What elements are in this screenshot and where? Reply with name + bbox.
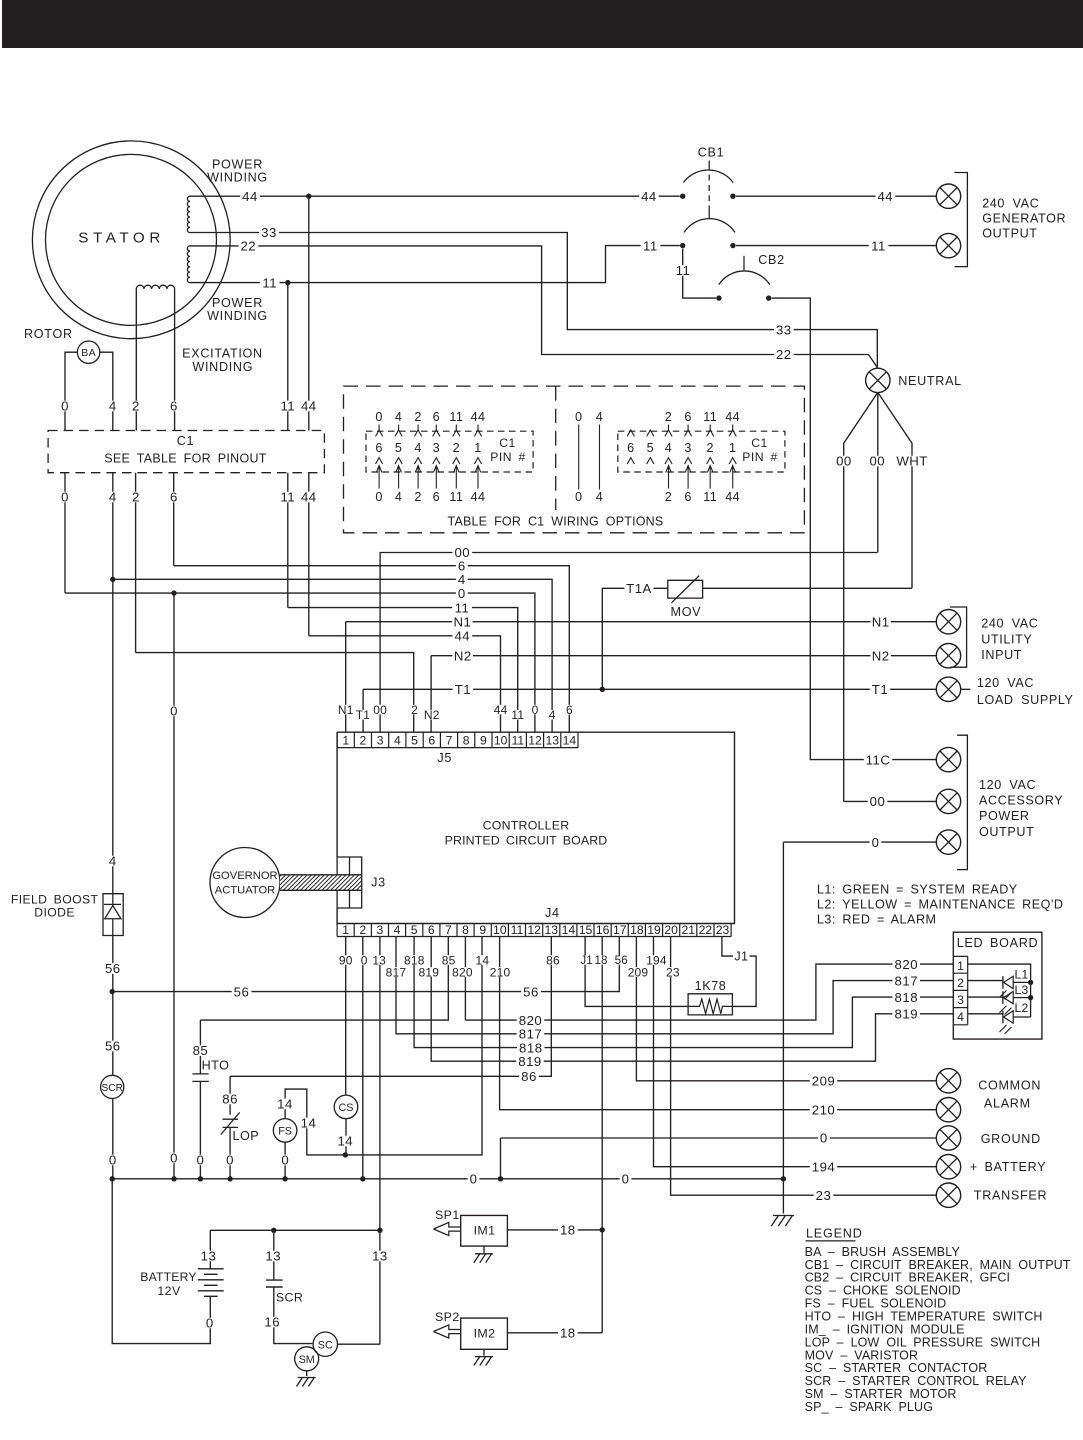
label 14 under J4p9 bbox=[475, 955, 491, 965]
svg-text:11: 11 bbox=[262, 275, 277, 290]
svg-text:0: 0 bbox=[375, 410, 382, 424]
label 86 mid bbox=[519, 1071, 539, 1082]
terminal common alarm 210 bbox=[936, 1098, 960, 1122]
label N1 at terminal bbox=[870, 616, 891, 627]
svg-text:56: 56 bbox=[105, 1039, 121, 1054]
label 210 at terminal bbox=[810, 1104, 838, 1115]
governor actuator circle bbox=[210, 848, 280, 918]
svg-text:6: 6 bbox=[433, 410, 440, 424]
neutral terminal circle bbox=[866, 368, 890, 392]
battery 12V symbol bbox=[198, 1268, 224, 1270]
svg-text:UTILITY: UTILITY bbox=[981, 633, 1032, 647]
choke solenoid CS bbox=[334, 1095, 358, 1119]
wire net N2 bus J5 pin6 to utility bbox=[431, 656, 936, 733]
svg-text:44: 44 bbox=[301, 490, 317, 505]
connector J5 cells and pin numbers bbox=[337, 747, 578, 749]
label 11 at CB1 bbox=[641, 240, 661, 251]
label T1 on bus bbox=[453, 684, 474, 695]
svg-text:11C: 11C bbox=[866, 752, 891, 767]
svg-text:4: 4 bbox=[395, 410, 402, 424]
wire battery positive bbox=[209, 1230, 211, 1269]
svg-text:11: 11 bbox=[449, 490, 463, 504]
wire net 0 ground terminal bbox=[501, 1138, 937, 1179]
label 0 on bus bbox=[456, 588, 468, 599]
wire net 22 stator to neutral bbox=[190, 246, 878, 368]
svg-text:2: 2 bbox=[957, 976, 964, 990]
svg-text:9: 9 bbox=[480, 734, 487, 748]
svg-text:13: 13 bbox=[265, 1249, 281, 1264]
label J1 under J4p15 bbox=[579, 955, 594, 964]
svg-text:OUTPUT: OUTPUT bbox=[979, 825, 1034, 839]
breaker CB1 pole 2 contacts bbox=[680, 243, 685, 248]
svg-text:17: 17 bbox=[613, 923, 627, 937]
svg-text:86: 86 bbox=[521, 1069, 537, 1084]
svg-text:ACTUATOR: ACTUATOR bbox=[215, 885, 276, 897]
label 44 below C1 bbox=[299, 492, 319, 503]
svg-text:ACCESSORY: ACCESSORY bbox=[979, 793, 1063, 807]
svg-text:GROUND: GROUND bbox=[981, 1132, 1041, 1146]
label 56 below junction bbox=[103, 1041, 123, 1052]
svg-text:T1A: T1A bbox=[626, 581, 652, 596]
svg-text:8: 8 bbox=[462, 923, 469, 937]
svg-text:21: 21 bbox=[681, 923, 695, 937]
label 14 at FS bbox=[275, 1099, 295, 1110]
junction dot L3 anode bbox=[1028, 995, 1033, 1000]
terminal accessory 00 bbox=[936, 789, 960, 813]
LED L2 bbox=[1002, 1011, 1004, 1024]
label 194 under J4p19 bbox=[645, 955, 668, 965]
pressure switch LOP bbox=[223, 1119, 239, 1127]
label 820 mid bbox=[517, 1015, 545, 1026]
label 4 at field boost bbox=[107, 856, 119, 867]
table for C1 outer dashed box bbox=[344, 386, 805, 533]
LED board box bbox=[953, 932, 1042, 1039]
svg-text:11: 11 bbox=[511, 708, 524, 722]
wire net 817 J4 pin4 to LED2 bbox=[396, 937, 954, 1034]
wire net T1A bbox=[602, 588, 668, 689]
svg-text:IM2: IM2 bbox=[474, 1327, 496, 1341]
svg-text:N1: N1 bbox=[338, 703, 354, 717]
svg-text:11: 11 bbox=[511, 734, 524, 748]
svg-text:22: 22 bbox=[776, 347, 792, 362]
junction dots bottom bus bbox=[110, 1176, 115, 1181]
wire net 11 CB1 to CB2 bbox=[683, 249, 716, 299]
label 85 at HTO bbox=[191, 1045, 211, 1056]
wire net 0 to accessory output bbox=[783, 841, 936, 843]
wire net 0 bus to J5 pin12 bbox=[65, 593, 535, 732]
label 6 on bus bbox=[456, 560, 468, 571]
svg-text:6: 6 bbox=[375, 441, 382, 455]
label N2 on bus bbox=[453, 650, 474, 661]
label 0 on drop (upper) bbox=[168, 706, 180, 717]
svg-text:6: 6 bbox=[428, 734, 435, 748]
svg-text:4: 4 bbox=[394, 923, 401, 937]
wire net 13 horizontal bbox=[210, 1229, 380, 1231]
svg-text:OUTPUT: OUTPUT bbox=[982, 227, 1037, 241]
wire net 16 SCR to SC bbox=[274, 1287, 313, 1344]
label 817 at LED bbox=[893, 975, 921, 986]
svg-text:23: 23 bbox=[816, 1188, 832, 1203]
LED board pin1 wire bbox=[968, 964, 1031, 1017]
svg-text:44: 44 bbox=[471, 490, 486, 504]
svg-text:FS: FS bbox=[278, 1126, 292, 1138]
svg-text:CS – CHOKE SOLENOID: CS – CHOKE SOLENOID bbox=[805, 1284, 961, 1298]
svg-text:56: 56 bbox=[234, 984, 250, 999]
svg-text:N1: N1 bbox=[453, 614, 471, 629]
LED L3 bbox=[1002, 991, 1004, 1004]
svg-text:2: 2 bbox=[360, 734, 367, 748]
terminal accessory 0 bbox=[936, 830, 960, 854]
svg-text:SEE TABLE FOR PINOUT: SEE TABLE FOR PINOUT bbox=[104, 452, 267, 466]
svg-text:POWER: POWER bbox=[979, 809, 1030, 823]
svg-text:6: 6 bbox=[428, 923, 435, 937]
bracket accessory output bbox=[957, 735, 967, 869]
svg-text:0: 0 bbox=[575, 410, 582, 424]
label 6 below C1 bbox=[168, 492, 180, 503]
svg-text:SP2: SP2 bbox=[435, 1310, 460, 1324]
svg-text:209: 209 bbox=[628, 965, 649, 979]
svg-text:210: 210 bbox=[812, 1102, 836, 1117]
svg-text:BA – BRUSH ASSEMBLY: BA – BRUSH ASSEMBLY bbox=[805, 1245, 961, 1259]
terminal transfer 23 bbox=[936, 1183, 960, 1207]
svg-text:44: 44 bbox=[877, 189, 893, 204]
wire net 44 bus to J5 pin10 bbox=[309, 636, 501, 732]
wire net 56 J4 pin17 to relay chain bbox=[112, 937, 619, 992]
svg-text:LOP: LOP bbox=[232, 1129, 259, 1143]
svg-text:14: 14 bbox=[337, 1134, 353, 1149]
wire net 11 bus to J5 pin11 bbox=[288, 608, 518, 733]
svg-text:HTO: HTO bbox=[202, 1059, 230, 1073]
svg-text:44: 44 bbox=[494, 703, 508, 717]
wire IM1 ground bbox=[483, 1246, 485, 1253]
relay contact SCR bbox=[266, 1280, 283, 1287]
svg-text:820: 820 bbox=[519, 1013, 543, 1028]
svg-text:9: 9 bbox=[479, 923, 486, 937]
label 44 near stator bbox=[240, 191, 260, 202]
svg-text:10: 10 bbox=[493, 923, 507, 937]
svg-text:86: 86 bbox=[222, 1092, 238, 1107]
stator outer circle bbox=[32, 141, 230, 339]
svg-text:2: 2 bbox=[665, 490, 672, 504]
label 0 above C1 bbox=[59, 401, 71, 412]
svg-text:2: 2 bbox=[665, 410, 672, 424]
svg-text:4: 4 bbox=[665, 441, 672, 455]
svg-text:3: 3 bbox=[684, 441, 691, 455]
terminal 240VAC utility N2 bbox=[936, 644, 960, 668]
svg-text:MOV – VARISTOR: MOV – VARISTOR bbox=[805, 1348, 919, 1362]
svg-text:22: 22 bbox=[240, 239, 256, 254]
svg-text:CB1 – CIRCUIT BREAKER, MAIN OU: CB1 – CIRCUIT BREAKER, MAIN OUTPUT bbox=[805, 1258, 1071, 1272]
svg-text:0: 0 bbox=[458, 586, 466, 601]
table divider dashed line bbox=[555, 386, 557, 510]
svg-text:22: 22 bbox=[699, 923, 713, 937]
svg-text:14: 14 bbox=[562, 923, 576, 937]
label 22 near stator bbox=[239, 241, 259, 252]
svg-text:817: 817 bbox=[895, 973, 919, 988]
svg-text:0: 0 bbox=[206, 1316, 214, 1331]
svg-text:13: 13 bbox=[545, 734, 559, 748]
svg-text:12: 12 bbox=[528, 734, 542, 748]
svg-text:817: 817 bbox=[386, 965, 407, 979]
svg-text:0: 0 bbox=[361, 953, 368, 967]
svg-text:J3: J3 bbox=[371, 876, 386, 890]
svg-text:194: 194 bbox=[646, 953, 667, 967]
label 817 under J4p4 bbox=[385, 967, 408, 977]
label 13 under J4p3 bbox=[371, 955, 387, 965]
label 00 (middle leg) bbox=[868, 456, 888, 467]
svg-text:0: 0 bbox=[170, 704, 178, 719]
wire net 819 J4 pin6 to LED4 bbox=[431, 937, 954, 1062]
svg-text:23: 23 bbox=[716, 923, 730, 937]
svg-text:SM – STARTER MOTOR: SM – STARTER MOTOR bbox=[805, 1387, 957, 1401]
label 0 on bottom bus (left) bbox=[468, 1174, 480, 1185]
label 209 at terminal bbox=[810, 1076, 838, 1087]
wire net 818 J4 pin5 to LED3 bbox=[414, 937, 954, 1048]
label 4 below C1 bbox=[107, 492, 119, 503]
svg-text:194: 194 bbox=[812, 1159, 836, 1174]
label 819 under J4p6 bbox=[418, 967, 441, 977]
chassis ground (IM2) bbox=[474, 1357, 493, 1366]
svg-text:33: 33 bbox=[776, 322, 792, 337]
svg-text:PIN #: PIN # bbox=[742, 450, 777, 464]
label 2 above C1 bbox=[130, 401, 142, 412]
wire net 11 CB1 to output terminal bbox=[736, 245, 937, 247]
junction dot net18 IM1 bbox=[600, 1227, 605, 1232]
terminal accessory 11C bbox=[936, 747, 960, 771]
svg-text:NEUTRAL: NEUTRAL bbox=[898, 374, 962, 388]
table left inner dashed box bbox=[366, 431, 533, 472]
svg-text:SM: SM bbox=[299, 1354, 315, 1366]
svg-text:L1: GREEN = SYSTEM READY: L1: GREEN = SYSTEM READY bbox=[817, 883, 1018, 897]
label 0 on bottom bus (right) bbox=[620, 1174, 632, 1185]
breaker CB1 trip link dashed bbox=[708, 175, 710, 206]
wire net 86 J4 pin13 to LOP bbox=[230, 937, 551, 1115]
wire net 11 below C1 bbox=[287, 473, 289, 608]
label 33 near neutral bbox=[774, 324, 794, 335]
svg-text:6: 6 bbox=[627, 441, 634, 455]
label WHT bbox=[897, 456, 927, 467]
wire net T1 bus J5 pin2 to load bbox=[363, 689, 936, 732]
label 0 under J4p2 bbox=[360, 955, 369, 965]
svg-text:00: 00 bbox=[870, 794, 886, 809]
breaker CB1 pole 2 arc bbox=[684, 219, 735, 233]
label 56 mid bbox=[521, 986, 541, 997]
svg-text:2: 2 bbox=[706, 441, 713, 455]
svg-text:N2: N2 bbox=[872, 648, 890, 663]
svg-text:817: 817 bbox=[519, 1026, 543, 1041]
svg-text:209: 209 bbox=[812, 1073, 836, 1088]
breaker CB1 stem bbox=[708, 161, 710, 171]
LED board pin cells bbox=[953, 956, 967, 1024]
svg-text:11: 11 bbox=[455, 600, 470, 615]
svg-text:0: 0 bbox=[226, 1153, 234, 1168]
junction dot net 56 bbox=[110, 989, 115, 994]
wire net 210 J4 pin10 to terminal bbox=[500, 937, 937, 1110]
breaker CB2 arc bbox=[719, 271, 770, 285]
chassis ground (right) bbox=[771, 1216, 794, 1227]
label 00 on bus bbox=[453, 547, 473, 558]
label 11 between CB1 and CB2 bbox=[673, 265, 693, 276]
label 00 at accessory bbox=[868, 796, 888, 807]
svg-text:13: 13 bbox=[544, 923, 558, 937]
wire net 6 excitation to C1 bbox=[174, 289, 176, 431]
svg-text:0: 0 bbox=[170, 1151, 178, 1166]
junction dot 11/column11 bbox=[285, 280, 290, 285]
wire net 44 CB1 to output terminal bbox=[736, 195, 937, 197]
label 11 near stator bbox=[260, 277, 280, 288]
starter contactor SC bbox=[313, 1332, 337, 1356]
svg-text:4: 4 bbox=[596, 490, 603, 504]
wire IM2 ground bbox=[483, 1349, 485, 1355]
excitation winding coil bbox=[136, 285, 174, 289]
label 6 above C1 bbox=[168, 401, 180, 412]
label 44 at generator output bbox=[876, 191, 896, 202]
svg-text:85: 85 bbox=[193, 1043, 209, 1058]
wire net 44 column to C1 bbox=[308, 196, 310, 430]
varistor MOV slash bbox=[672, 576, 700, 603]
connector C1 dashed box bbox=[48, 431, 324, 473]
svg-text:0: 0 bbox=[109, 1153, 117, 1168]
svg-text:0: 0 bbox=[61, 490, 69, 505]
controller PCB outline bbox=[337, 732, 734, 923]
svg-text:0: 0 bbox=[470, 1171, 478, 1186]
label 56 under J4p17 bbox=[614, 955, 629, 964]
svg-text:6: 6 bbox=[170, 490, 178, 505]
label 819 mid bbox=[516, 1056, 544, 1067]
junction dot net13 bbox=[377, 1228, 382, 1233]
resistor 1K78 zigzag bbox=[688, 999, 732, 1014]
svg-text:3: 3 bbox=[957, 993, 964, 1007]
svg-text:3: 3 bbox=[377, 923, 384, 937]
svg-text:ROTOR: ROTOR bbox=[24, 327, 73, 341]
wire net 6 bus to J5 pin14 bbox=[174, 566, 570, 733]
wire net 13 J4 pin3 to SC bbox=[379, 937, 381, 1345]
svg-text:J5: J5 bbox=[437, 751, 452, 765]
J5 pin net labels bbox=[337, 705, 354, 715]
svg-text:4: 4 bbox=[109, 490, 117, 505]
svg-text:19: 19 bbox=[647, 923, 661, 937]
label 194 at terminal bbox=[810, 1161, 838, 1172]
svg-text:1K78: 1K78 bbox=[695, 979, 727, 993]
svg-text:240 VAC: 240 VAC bbox=[981, 617, 1038, 631]
wire net N1 bus J5 pin1 to utility bbox=[346, 622, 937, 733]
junction dot T1/T1A bbox=[600, 687, 605, 692]
wire net 23 J4 pin20 to transfer bbox=[671, 937, 937, 1196]
svg-text:3: 3 bbox=[377, 734, 384, 748]
label 820 under J4p8 bbox=[451, 967, 474, 977]
svg-text:POWER: POWER bbox=[212, 158, 263, 172]
label 44 above C1 bbox=[299, 401, 319, 412]
terminal common alarm 209 bbox=[936, 1069, 960, 1093]
LED board pin3 wire bbox=[968, 996, 1003, 998]
svg-text:HTO – HIGH TEMPERATURE SWITCH: HTO – HIGH TEMPERATURE SWITCH bbox=[805, 1310, 1043, 1324]
svg-text:15: 15 bbox=[579, 923, 593, 937]
svg-text:819: 819 bbox=[895, 1006, 919, 1021]
label 56 left bbox=[232, 986, 252, 997]
terminal +battery 194 bbox=[936, 1155, 960, 1179]
wire net 90 J4 pin1 to CS bbox=[345, 937, 347, 1096]
svg-text:TRANSFER: TRANSFER bbox=[974, 1189, 1047, 1203]
label 90 bbox=[338, 955, 354, 965]
chassis ground (IM1) bbox=[474, 1254, 493, 1263]
table right inner dashed box bbox=[618, 431, 785, 472]
svg-text:56: 56 bbox=[523, 984, 539, 999]
page header bar bbox=[2, 0, 1083, 48]
label 4 above C1 bbox=[107, 401, 119, 412]
svg-text:MOV: MOV bbox=[671, 605, 702, 619]
svg-text:4: 4 bbox=[109, 399, 117, 414]
svg-text:820: 820 bbox=[452, 965, 473, 979]
svg-text:LOP – LOW OIL PRESSURE SWITCH: LOP – LOW OIL PRESSURE SWITCH bbox=[805, 1335, 1041, 1349]
svg-text:J1: J1 bbox=[734, 949, 748, 963]
svg-text:SCR – STARTER CONTROL RELAY: SCR – STARTER CONTROL RELAY bbox=[805, 1374, 1027, 1388]
svg-text:120 VAC: 120 VAC bbox=[979, 778, 1036, 792]
svg-text:5: 5 bbox=[647, 441, 654, 455]
svg-text:2: 2 bbox=[453, 441, 460, 455]
svg-text:LEGEND: LEGEND bbox=[806, 1226, 863, 1240]
ignition module IM1 box bbox=[461, 1215, 508, 1246]
svg-text:FIELD BOOST: FIELD BOOST bbox=[11, 893, 99, 907]
governor actuator shaft (hatched) bbox=[280, 875, 362, 891]
wire net 44 from stator to CB1 bbox=[190, 195, 680, 197]
label 00 (left leg) bbox=[834, 456, 854, 467]
label 818 at LED bbox=[893, 992, 921, 1003]
svg-text:11: 11 bbox=[643, 238, 658, 253]
svg-text:44: 44 bbox=[725, 410, 740, 424]
svg-text:7: 7 bbox=[445, 923, 452, 937]
wire net 85 HTO drop bbox=[199, 1020, 201, 1074]
svg-text:DIODE: DIODE bbox=[34, 906, 75, 920]
label 817 mid bbox=[517, 1029, 545, 1040]
svg-text:IM1: IM1 bbox=[474, 1224, 496, 1238]
svg-text:16: 16 bbox=[264, 1315, 280, 1330]
wire net 2 below C1 bbox=[135, 473, 137, 653]
wire neutral fan left 00 bbox=[844, 392, 878, 801]
wire HTO to bus bbox=[199, 1081, 201, 1178]
spark plug arrow SP1 bbox=[434, 1222, 461, 1235]
label 22 near neutral bbox=[774, 349, 794, 360]
label 11 on bus bbox=[452, 602, 472, 613]
svg-text:L2: L2 bbox=[1015, 1001, 1029, 1015]
LED board pin4 wire bbox=[968, 1013, 1003, 1015]
svg-text:GENERATOR: GENERATOR bbox=[982, 212, 1066, 226]
label 0 above bus (LOP) bbox=[224, 1155, 236, 1166]
label N2 at terminal bbox=[870, 650, 891, 661]
wire net 2 excitation to C1 bbox=[135, 289, 137, 431]
chassis ground (starter motor) bbox=[297, 1378, 316, 1387]
svg-text:SCR: SCR bbox=[276, 1291, 303, 1305]
svg-text:GOVERNOR: GOVERNOR bbox=[212, 870, 277, 882]
label T1 at terminal bbox=[870, 684, 891, 695]
label 18 at IM2 bbox=[558, 1328, 578, 1339]
svg-text:WINDING: WINDING bbox=[192, 360, 253, 374]
field boost diode symbol bbox=[104, 894, 121, 906]
svg-text:4: 4 bbox=[395, 490, 402, 504]
wire net J1 J4 pin15 to resistor bbox=[585, 937, 688, 1007]
LED board pin2 wire bbox=[968, 980, 1003, 982]
svg-text:STATOR: STATOR bbox=[78, 229, 165, 246]
label 0 at ground terminal bbox=[818, 1133, 830, 1144]
svg-text:56: 56 bbox=[105, 961, 121, 976]
svg-text:1: 1 bbox=[729, 441, 736, 455]
wire net 4 bus to J5 pin13 bbox=[113, 579, 552, 732]
svg-text:L1: L1 bbox=[1015, 968, 1029, 982]
svg-text:33: 33 bbox=[261, 225, 277, 240]
label 33 near stator bbox=[259, 227, 279, 238]
svg-text:L3: RED = ALARM: L3: RED = ALARM bbox=[817, 913, 937, 927]
junction dot net4 / field boost bbox=[110, 577, 115, 582]
svg-text:2: 2 bbox=[132, 399, 140, 414]
